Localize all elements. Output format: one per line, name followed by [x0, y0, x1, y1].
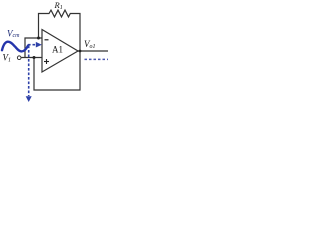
- svg-text:A1: A1: [52, 45, 63, 55]
